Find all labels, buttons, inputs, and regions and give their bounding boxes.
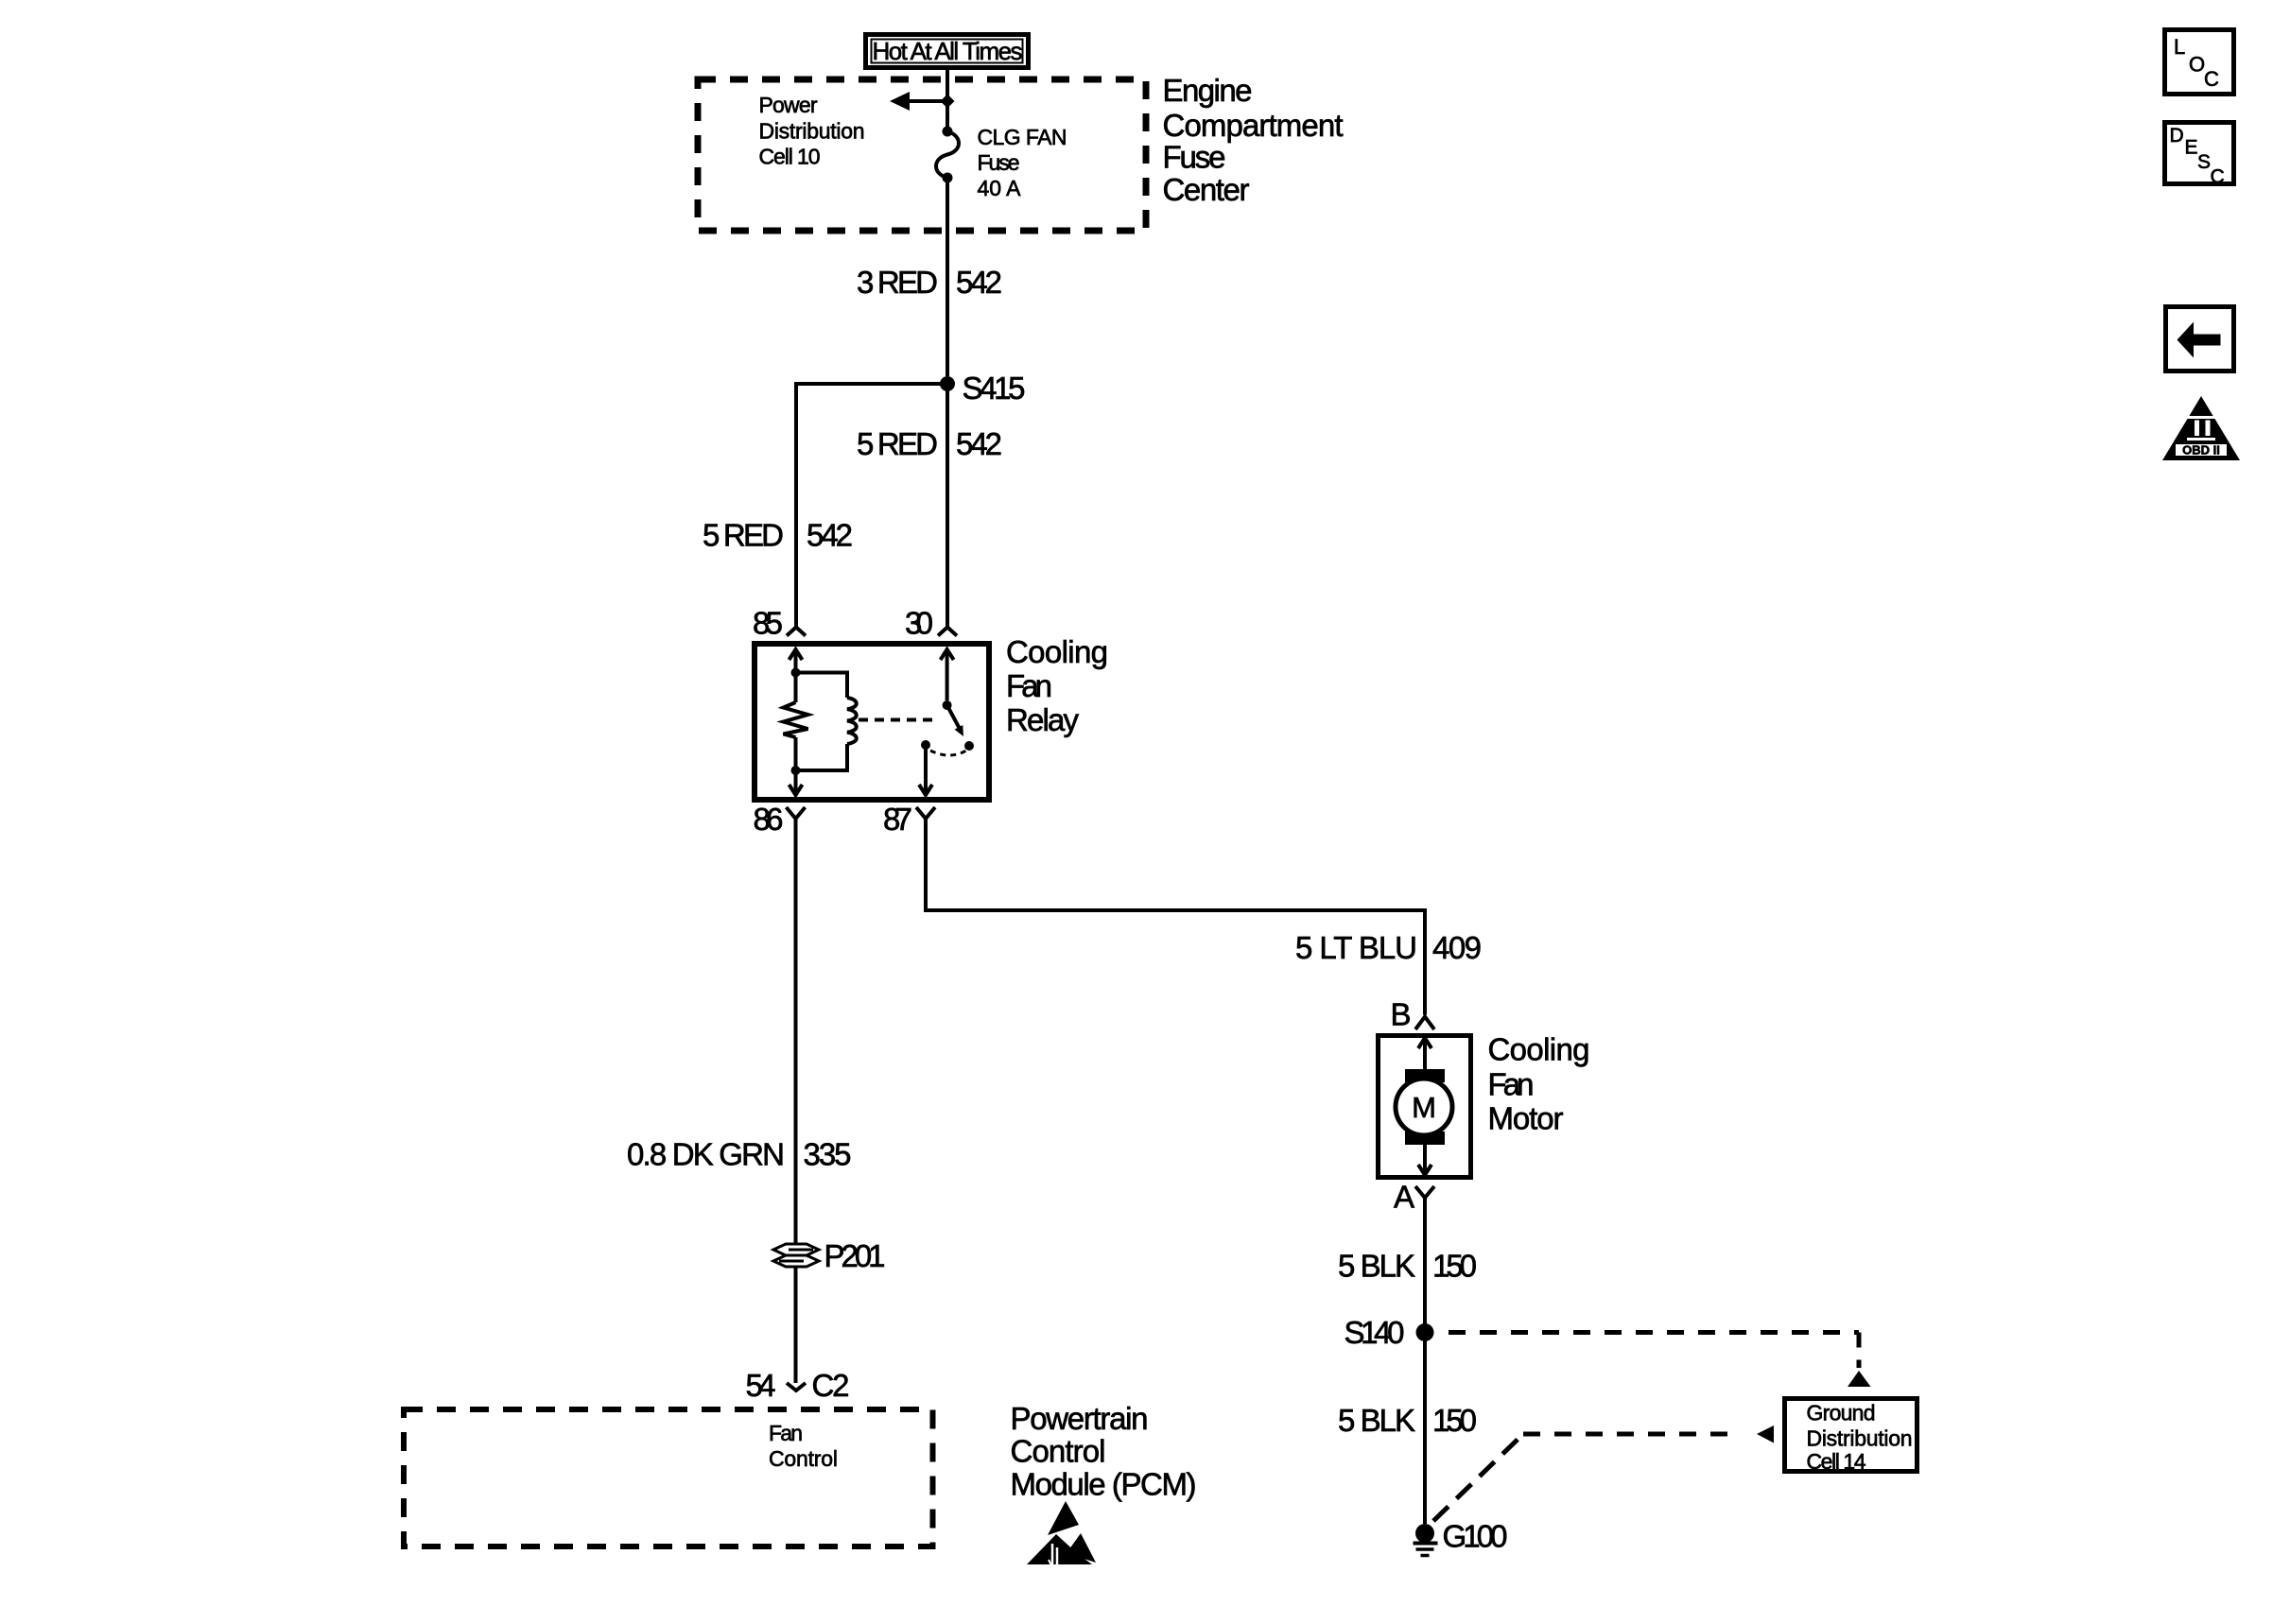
svg-text:Cooling: Cooling [1006, 634, 1108, 669]
node S415 [940, 376, 955, 391]
svg-text:Compartment: Compartment [1163, 108, 1344, 143]
connector pass-through P201 [773, 1244, 819, 1267]
wire arrow to Power Distribution Cell 10 [890, 92, 947, 111]
svg-text:54: 54 [746, 1368, 776, 1403]
svg-text:Cooling: Cooling [1488, 1032, 1590, 1067]
label Power Distribution Cell 10 [759, 93, 865, 169]
svg-text:Motor: Motor [1488, 1101, 1564, 1136]
svg-text:0.8 DK GRN: 0.8 DK GRN [627, 1137, 785, 1172]
label G100 [1443, 1519, 1508, 1554]
label S140 [1345, 1315, 1405, 1350]
svg-text:Cell 10: Cell 10 [759, 145, 821, 169]
svg-text:542: 542 [807, 518, 853, 553]
svg-text:P201: P201 [824, 1238, 886, 1273]
power feed label box "Hot At All Times" [866, 35, 1029, 68]
svg-text:CLG FAN: CLG FAN [978, 125, 1067, 149]
icon back arrow [2166, 307, 2234, 371]
dashed reference G100 to Ground Distribution [1433, 1425, 1774, 1521]
svg-text:5 RED: 5 RED [703, 518, 784, 553]
svg-text:O: O [2189, 53, 2205, 77]
dashed reference S140 to Ground Distribution [1449, 1333, 1871, 1388]
svg-text:C: C [2211, 166, 2225, 188]
relay box Cooling Fan Relay [755, 644, 989, 800]
svg-text:87: 87 [883, 802, 912, 837]
svg-text:Control: Control [1011, 1434, 1106, 1469]
label S415 [963, 371, 1026, 406]
svg-text:5 BLK: 5 BLK [1338, 1403, 1415, 1438]
node junction at fuse feed [941, 95, 955, 109]
svg-text:40 A: 40 A [978, 176, 1022, 200]
label 3 RED 542 [857, 265, 1002, 300]
label P201 [824, 1238, 886, 1273]
svg-text:335: 335 [804, 1137, 852, 1172]
svg-text:542: 542 [956, 426, 1002, 461]
label Engine Compartment Fuse Center [1163, 73, 1344, 207]
svg-text:Fuse: Fuse [978, 150, 1020, 175]
wire from Hot At All Times down to fuse [946, 67, 949, 129]
label 0.8 DK GRN 335 [627, 1137, 852, 1172]
svg-text:Fuse: Fuse [1163, 140, 1226, 175]
svg-text:S: S [2197, 151, 2211, 173]
ESD sensitive device symbol [1027, 1501, 1096, 1565]
svg-text:B: B [1390, 997, 1411, 1032]
svg-text:Engine: Engine [1163, 73, 1253, 108]
icon LOC [2165, 30, 2234, 95]
motor box [1379, 1036, 1471, 1178]
svg-text:30: 30 [905, 606, 933, 641]
relay switch [859, 649, 974, 795]
svg-text:5 LT BLU: 5 LT BLU [1295, 930, 1417, 965]
svg-text:G100: G100 [1443, 1519, 1508, 1554]
wire pin 87 to motor pin B [926, 819, 1425, 1015]
svg-text:5 RED: 5 RED [857, 426, 938, 461]
label Fan Control [769, 1421, 838, 1471]
wire fuse to S415 [946, 178, 949, 376]
svg-text:150: 150 [1432, 1403, 1477, 1438]
fuse CLG FAN 40 A [936, 127, 959, 183]
svg-text:S415: S415 [963, 371, 1026, 406]
ground G100 [1414, 1524, 1438, 1556]
svg-text:OBD II: OBD II [2182, 443, 2220, 458]
pin 85 label and connector [753, 606, 806, 641]
svg-text:Powertrain: Powertrain [1011, 1401, 1149, 1436]
pin B label and connector [1390, 997, 1434, 1032]
pin A label and connector [1394, 1180, 1434, 1215]
label 5 BLK 150 lower [1338, 1403, 1477, 1438]
svg-text:Module (PCM): Module (PCM) [1011, 1467, 1197, 1502]
motor symbol M [1396, 1038, 1452, 1175]
pin 30 label and connector [905, 606, 957, 641]
svg-text:Power: Power [759, 93, 818, 117]
svg-text:Relay: Relay [1006, 702, 1080, 737]
wire P201 to PCM pin 54 [794, 1268, 798, 1383]
ground distribution box [1785, 1399, 1917, 1472]
pin 87 label and connector [883, 802, 935, 837]
svg-text:S140: S140 [1345, 1315, 1405, 1350]
svg-text:3 RED: 3 RED [857, 265, 938, 300]
relay coil branch with resistor [784, 649, 857, 795]
svg-text:Distribution: Distribution [1807, 1426, 1913, 1451]
svg-text:Ground: Ground [1807, 1401, 1876, 1425]
label 5 LT BLU 409 [1295, 930, 1482, 965]
svg-text:Control: Control [769, 1446, 838, 1471]
wire pin 86 down to P201 [794, 819, 798, 1244]
svg-text:542: 542 [956, 265, 1002, 300]
svg-text:M: M [1412, 1091, 1436, 1124]
svg-text:85: 85 [753, 606, 783, 641]
label Cooling Fan Motor [1488, 1032, 1590, 1136]
svg-text:Fan: Fan [769, 1421, 803, 1445]
svg-text:Hot At All Times: Hot At All Times [873, 37, 1023, 65]
svg-text:L: L [2174, 35, 2185, 59]
icon DESC [2165, 123, 2234, 188]
svg-text:D: D [2170, 125, 2184, 147]
svg-text:C: C [2204, 67, 2219, 91]
pin 86 label and connector [754, 802, 806, 837]
node S140 [1416, 1323, 1434, 1341]
label Cooling Fan Relay [1006, 634, 1108, 737]
icon OBD II triangle [2162, 396, 2240, 460]
svg-text:5 BLK: 5 BLK [1338, 1249, 1415, 1284]
pin 54 C2 connector [746, 1368, 850, 1403]
wire pin A down to G100 [1423, 1198, 1427, 1524]
svg-text:150: 150 [1432, 1249, 1477, 1284]
label 5 RED 542 right branch [857, 426, 1002, 461]
label Powertrain Control Module (PCM) [1011, 1401, 1197, 1502]
wire S415 branch to left [796, 382, 947, 627]
wire S415 down to relay pin 30 [946, 384, 949, 627]
PCM dashed box [404, 1409, 933, 1546]
label Ground Distribution Cell 14 [1807, 1401, 1913, 1475]
svg-text:86: 86 [754, 802, 784, 837]
label CLG FAN Fuse 40 A [978, 125, 1067, 200]
svg-text:Fan: Fan [1006, 668, 1052, 703]
svg-text:E: E [2185, 137, 2198, 159]
svg-text:C2: C2 [812, 1368, 850, 1403]
svg-text:A: A [1394, 1180, 1414, 1215]
svg-text:Distribution: Distribution [759, 119, 865, 144]
svg-text:Center: Center [1163, 172, 1250, 207]
label 5 BLK 150 upper [1338, 1249, 1477, 1284]
svg-text:Cell 14: Cell 14 [1807, 1449, 1866, 1474]
svg-text:Fan: Fan [1488, 1067, 1535, 1102]
engine compartment fuse center dashed box [698, 79, 1146, 231]
svg-text:409: 409 [1432, 930, 1482, 965]
label 5 RED 542 left branch [703, 518, 853, 553]
